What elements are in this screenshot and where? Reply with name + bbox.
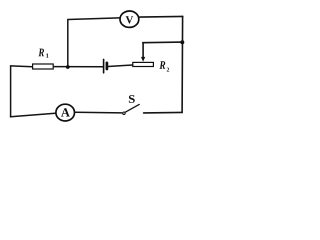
wire bottom left to ammeter <box>11 113 56 117</box>
node junction dot between R1 and battery <box>66 65 70 69</box>
label V on voltmeter <box>126 16 134 23</box>
wire ammeter to switch <box>75 111 122 114</box>
voltmeter U-V <box>120 11 139 27</box>
wire left border vertical <box>10 66 12 117</box>
label R1 (R) <box>38 49 44 57</box>
label A on ammeter <box>61 108 70 116</box>
wire switch to bottom-right corner <box>144 111 183 114</box>
label R2 (R) <box>159 61 165 69</box>
wire voltmeter left vertical drop to node <box>67 20 69 67</box>
resistor R1 <box>33 64 54 69</box>
switch S hinge <box>123 112 125 114</box>
wire slider branch horizontal <box>143 41 183 44</box>
battery cell long plate <box>103 59 105 72</box>
wire R1 to battery <box>54 66 103 68</box>
wire voltmeter left horizontal <box>68 18 119 20</box>
rheostat R2 <box>133 62 154 66</box>
label R1 (subscript 1) <box>46 54 48 58</box>
ammeter U-A <box>56 104 75 121</box>
wire voltmeter right to top-right corner <box>140 15 183 18</box>
label R2 (subscript 2) <box>167 68 169 72</box>
wire battery to R2 <box>108 65 132 67</box>
battery cell short thick plate <box>106 63 109 69</box>
wire right border vertical <box>181 16 184 112</box>
node junction dot on right border (slider tap) <box>180 40 184 44</box>
label S for switch <box>129 95 135 103</box>
switch S lever (open) <box>125 104 139 112</box>
wire left branch to R1 <box>11 65 33 68</box>
rheostat slider arrowhead <box>141 57 145 62</box>
wire slider vertical with arrow onto rheostat <box>142 43 144 58</box>
